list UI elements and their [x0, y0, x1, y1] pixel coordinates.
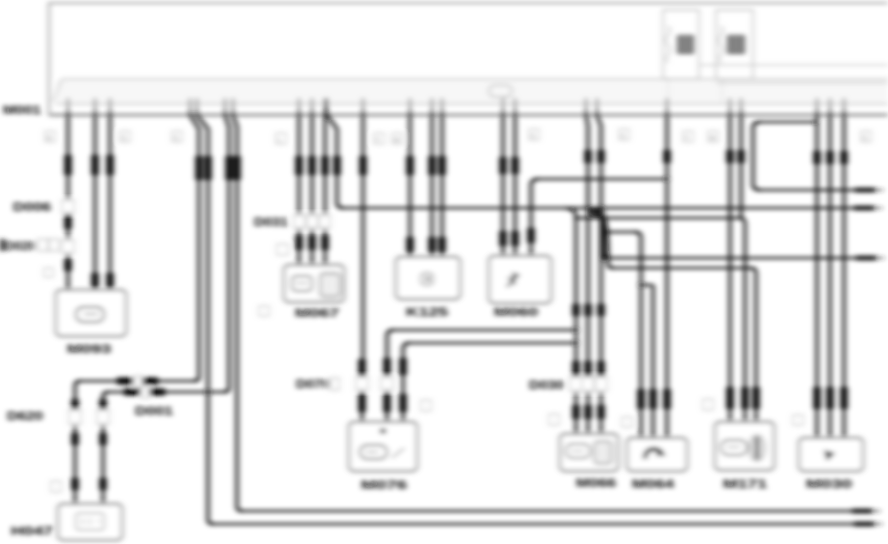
- svg-text:D020: D020: [5, 239, 36, 253]
- wire mid horizontal M060pin3 to M064 wire: [536, 178, 667, 180]
- connector D001 on wires: [134, 376, 142, 387]
- svg-text:M076: M076: [361, 478, 407, 492]
- component M076: [349, 422, 417, 471]
- node junction y179 bus: [665, 177, 670, 182]
- wire M001 down-bend to D620 right: [224, 113, 229, 392]
- wire M001 to M066 pin3: [597, 113, 601, 434]
- wire fan down to M171 right branch: [602, 213, 613, 268]
- wire arrow bottom bus B: [852, 509, 872, 514]
- svg-text:D006: D006: [13, 200, 51, 214]
- wire blobs D006 D020: [64, 215, 71, 271]
- wire D620 corner down pin1: [75, 381, 80, 504]
- component M067: [284, 265, 344, 302]
- wire pin blobs M093 top: [68, 155, 110, 175]
- wire corner down to M171 pin2: [740, 218, 745, 422]
- wire M064 jog horizontal: [641, 284, 653, 286]
- connector D031 on wires: [294, 215, 305, 228]
- wire corner down to M060 pin3: [531, 179, 538, 256]
- svg-text:M066: M066: [576, 476, 616, 490]
- wire fan down to M064 branch: [600, 211, 609, 232]
- wire branch horizontal y268 to M171: [611, 267, 753, 269]
- svg-text:D031: D031: [254, 215, 288, 229]
- svg-text:M064: M064: [632, 477, 674, 491]
- wire blobs M030 entry: [817, 387, 844, 409]
- wire M001 to M060 pin2: [514, 113, 517, 256]
- wire M001 to M064 pin3: [666, 113, 669, 438]
- fuse F2 box: [716, 10, 753, 79]
- svg-text:D030: D030: [529, 378, 564, 392]
- wire arrow long bus right: [854, 206, 874, 211]
- wire blobs D070: [362, 358, 403, 376]
- wire blobs D030: [576, 361, 601, 376]
- wire M001 to M093 pin3: [109, 113, 112, 290]
- svg-text:M067: M067: [295, 306, 339, 320]
- node junction D620 bus: [205, 389, 210, 394]
- wire arrow tails: [872, 190, 884, 524]
- wire pin blobs M066 top: [588, 150, 601, 163]
- wire branch horizontal y232: [607, 231, 637, 233]
- svg-text:M: M: [394, 138, 399, 144]
- svg-text:D620: D620: [7, 409, 43, 423]
- wire blobs K125 entry: [410, 237, 442, 252]
- wire M076 to M066 upper horizontal: [391, 329, 576, 331]
- wire blobs M064 entry: [641, 389, 667, 409]
- svg-text:C: C: [863, 136, 868, 142]
- wire M076 to M066 lower horizontal: [407, 342, 576, 344]
- wire corner down to M064 pin1: [635, 232, 641, 438]
- wire blobs M171 entry: [730, 387, 756, 409]
- wire pin blobs M067 top: [299, 156, 337, 175]
- wire pin blobs left bus top: [199, 156, 237, 180]
- node junction M066 lower: [573, 340, 578, 345]
- wire pin blobs M030 top: [817, 151, 844, 164]
- svg-text:H047: H047: [11, 524, 53, 538]
- svg-text:C: C: [621, 134, 626, 140]
- svg-text:M093: M093: [67, 342, 111, 356]
- connector oval on band: [489, 85, 512, 97]
- svg-text:D001: D001: [135, 404, 173, 418]
- svg-text:F: F: [376, 138, 380, 144]
- wire M001 down to bottom bus B: [233, 113, 242, 511]
- connector D020 symbols: [38, 239, 48, 251]
- wire horizontal D620 lower: [106, 391, 226, 393]
- svg-text:C: C: [531, 134, 536, 140]
- node junction bridge top: [814, 120, 818, 124]
- wire blobs D620 and H047 entry: [75, 399, 103, 490]
- wire corner down to M171 pin3: [751, 268, 756, 422]
- component M171: [715, 422, 774, 470]
- connector D070 label square: [330, 378, 339, 390]
- wire M001 to M067 pin2: [311, 113, 314, 265]
- svg-text:M030: M030: [806, 477, 852, 491]
- wire blobs M076 entry: [362, 394, 403, 412]
- wire pin blobs M060 top: [503, 157, 515, 174]
- component M060: [489, 256, 551, 303]
- connector pin-id squares: [44, 129, 871, 492]
- node junction M064 jog: [638, 282, 643, 287]
- svg-text:M: M: [710, 136, 715, 142]
- wire arrow fan bus right: [856, 256, 876, 261]
- component M030: [799, 438, 863, 471]
- svg-text:M060: M060: [494, 305, 538, 319]
- wire bottom bus B horizontal: [240, 510, 854, 512]
- wire M001 to M060 pin1: [502, 113, 505, 256]
- wire bridge top horizontal: [756, 121, 816, 123]
- wire M001 to M067 pin3: [324, 113, 327, 265]
- wire M001 to M093 pin1: [67, 113, 70, 290]
- svg-text:K125: K125: [406, 305, 448, 319]
- connector D006 on wire: [62, 200, 74, 213]
- wire M001 to M076 pin1: [362, 113, 363, 422]
- wire M001 to M030 pin2: [829, 113, 832, 438]
- wire M001 to K125 pin1: [409, 113, 412, 257]
- wire corner down to M076 pin3: [403, 343, 409, 422]
- wire pin blobs right bus top: [667, 150, 741, 163]
- fuse F1 wire squiggle: [666, 26, 670, 63]
- fuse F1 glyph: [677, 35, 694, 54]
- wire blobs M067 entry: [299, 235, 325, 250]
- wire M001 to M171 pin1: [729, 113, 732, 422]
- wire arrow bottom bus A: [854, 522, 874, 527]
- fuse feed light wires: [668, 65, 888, 104]
- wire M001 down-bend to D620 left: [190, 113, 199, 381]
- wire M001 to M066 pin2: [586, 113, 588, 434]
- component M064: [627, 438, 687, 471]
- svg-text:D070: D070: [296, 377, 330, 391]
- wire blobs M066 upper: [576, 304, 601, 316]
- wire M001 to M093 pin2: [94, 113, 97, 290]
- node junction M066 upper: [573, 327, 578, 332]
- wire branch horizontal y258 to arrow: [607, 257, 856, 259]
- fuse F1 box: [663, 10, 699, 79]
- node junction knot: [595, 208, 601, 214]
- wire blobs M093 entry: [95, 273, 110, 287]
- M001 inner band: [56, 80, 888, 104]
- svg-text:C: C: [122, 136, 127, 142]
- wire M001 bend into long right bus: [327, 113, 343, 208]
- svg-text:C: C: [174, 136, 179, 142]
- connector D030 on wires: [570, 377, 582, 391]
- wire M001 down to bottom bus A: [197, 113, 213, 524]
- wire horizontal D620 upper: [78, 380, 196, 382]
- wire bottom bus A horizontal: [211, 523, 854, 525]
- wire bridge bottom horizontal to arrow: [757, 189, 855, 191]
- component M093: [56, 290, 126, 336]
- component H047: [58, 504, 122, 540]
- fuse F2 glyph: [727, 35, 745, 54]
- component K125: [396, 257, 460, 299]
- wire M001 to K125 pin3: [441, 113, 444, 257]
- wire M001 down to mid bus: [740, 113, 743, 218]
- wire mid bus horizontal y218: [574, 217, 742, 219]
- svg-text:F: F: [685, 136, 689, 142]
- band pin ticks: [68, 98, 844, 116]
- wire D620 corner down pin2: [103, 392, 108, 504]
- connector D620 on wires: [69, 410, 81, 424]
- connector D020 mark: [0, 239, 5, 251]
- svg-text:M001: M001: [3, 103, 41, 117]
- fuse F2 wire squiggle: [719, 26, 723, 63]
- wire pin blobs K125 top: [363, 156, 442, 175]
- wire arrow bridge bus right: [855, 188, 875, 193]
- wire blobs M060 entry: [503, 228, 531, 246]
- wire M001 to K125 pin2: [431, 113, 434, 257]
- wire long right bus horizontal: [341, 207, 856, 209]
- wire M001 to M067 pin1: [298, 113, 301, 265]
- connector D070 on wires: [356, 377, 368, 390]
- wire corner down to M076 pin2: [387, 330, 393, 422]
- fuse box M001 outline: [49, 3, 888, 115]
- wire branch down to M066 pin1: [566, 208, 576, 434]
- wire blobs D001: [117, 381, 165, 392]
- svg-text:B: B: [47, 136, 51, 142]
- component M066: [560, 434, 618, 471]
- svg-text:M171: M171: [723, 477, 767, 491]
- wire blobs M066 entry: [576, 405, 601, 419]
- wire M064 pin2 vertical: [652, 285, 655, 438]
- wire fan down to right arrow mid: [604, 229, 609, 258]
- wire M001 to M030 pin3: [843, 113, 846, 438]
- wire M001 to M030 pin1: [816, 113, 819, 438]
- node junction fan: [602, 256, 607, 261]
- wire bridge vertical: [753, 122, 760, 190]
